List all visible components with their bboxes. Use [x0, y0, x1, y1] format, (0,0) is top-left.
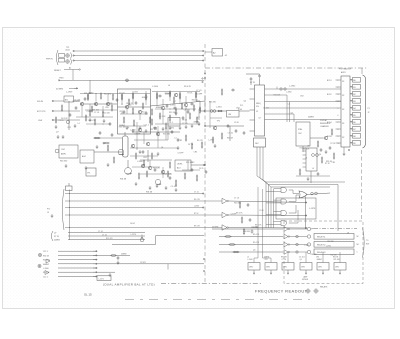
svg-text:RELAY K3: RELAY K3 [317, 251, 325, 254]
svg-text:L-1960: L-1960 [194, 206, 199, 208]
resistor R71 [94, 118, 96, 125]
svg-text:L-1978: L-1978 [309, 208, 316, 210]
and gate U4c [281, 211, 286, 216]
svg-text:R12 470: R12 470 [186, 162, 193, 164]
ground g54 [191, 124, 194, 128]
pin stub U2 4 [336, 100, 342, 102]
resistor R10 [156, 92, 158, 99]
svg-text:R7 1K: R7 1K [250, 82, 256, 84]
wire mesh c5 [155, 108, 196, 110]
capacitor C33 [166, 104, 169, 108]
row wire 215 [65, 214, 222, 216]
wire mesh b4 [120, 113, 148, 115]
svg-text:C5 .001: C5 .001 [74, 100, 80, 102]
relay row 4 feed wire [219, 251, 283, 253]
svg-text:CR2: CR2 [300, 96, 304, 98]
output wire U1 line5 [265, 113, 295, 115]
svg-text:7: 7 [338, 122, 339, 124]
bracket P/O J3 [62, 189, 64, 230]
resistor R19 [113, 156, 115, 163]
wire mesh a6 [102, 106, 104, 111]
svg-text:FREQ: FREQ [256, 103, 261, 105]
shield box amplifier stage 2 [118, 89, 151, 134]
svg-text:C3 5PF: C3 5PF [86, 111, 93, 113]
ground midl b [157, 152, 160, 156]
and gate U4d [281, 221, 286, 226]
diode CR4 [296, 235, 298, 237]
resistor R60 [151, 152, 153, 159]
transistor Q2 [94, 102, 97, 105]
transistor Q7 [184, 103, 187, 106]
svg-text:L-1960: L-1960 [304, 245, 309, 247]
diode CR6 [296, 251, 298, 253]
svg-text:2: 2 [338, 87, 339, 89]
ground amp2 c [198, 122, 201, 126]
capacitor C15 [158, 95, 162, 98]
wire amp2 out [196, 100, 200, 102]
pin circle DS3 [351, 93, 352, 94]
resistor R43 [221, 88, 223, 95]
svg-text:1: 1 [338, 80, 339, 82]
resistor R8 [145, 93, 147, 100]
output wire U1 line3 [265, 101, 342, 103]
capacitor C32 [123, 110, 126, 114]
row wire 207.5 [65, 207, 204, 209]
svg-text:R4 2.2K: R4 2.2K [61, 118, 68, 120]
svg-text:R4 2.2K: R4 2.2K [159, 116, 166, 118]
wire feed v2 [262, 189, 264, 258]
wire drop x294 [293, 114, 295, 122]
capacitor C1 [75, 106, 78, 110]
ground amp2 a [162, 127, 165, 131]
bus wire BCD [73, 60, 204, 62]
diode CR5 [296, 243, 298, 245]
resistor R15 [189, 112, 191, 119]
resistor R31 [55, 116, 57, 123]
svg-text:B8: B8 [353, 136, 355, 138]
relay row parts a [224, 236, 231, 238]
capacitor C18 [169, 176, 172, 180]
connector J4 box top [59, 54, 65, 58]
driver box A13 [300, 263, 312, 271]
transistor Q11 [148, 166, 151, 169]
gate output wire U4d [289, 222, 293, 224]
pin wire DS4 [350, 100, 353, 102]
pin stub U1 5 [250, 130, 255, 132]
pin wire DS6 [350, 114, 353, 116]
transistor Q6 [161, 106, 164, 109]
svg-text:R9 4.7K: R9 4.7K [253, 234, 260, 236]
wire mesh a5 [89, 104, 91, 110]
svg-text:CR5: CR5 [194, 152, 198, 154]
svg-text:J3: J3 [47, 212, 49, 214]
resistor R4 [89, 109, 91, 116]
wire A5 out [191, 164, 205, 166]
svg-text:AMPL: AMPL [61, 153, 66, 156]
row tick 201 [68, 200, 71, 203]
wire mesh c8 [198, 109, 200, 120]
svg-text:L-1960: L-1960 [152, 86, 158, 88]
rc group row3 [243, 228, 245, 235]
bracket readout [363, 228, 365, 258]
pin stub U2 8 [336, 142, 342, 144]
resistor R18 [107, 144, 109, 151]
driver box A10 [248, 263, 260, 271]
wire midl rail [132, 131, 180, 133]
resistor R21 [151, 118, 153, 125]
pin wire DS2 [350, 86, 353, 88]
dash rail bottom 1 [161, 282, 262, 284]
svg-text:CR2: CR2 [179, 140, 183, 142]
label U2 inner rows [342, 81, 345, 139]
resistor R56 [173, 96, 175, 103]
resistor R7 [132, 92, 134, 99]
svg-text:C3 5PF: C3 5PF [196, 94, 203, 96]
wire drop to amp [89, 80, 91, 94]
svg-text:R21 10K: R21 10K [334, 259, 341, 261]
svg-text:TP1: TP1 [87, 173, 90, 175]
ground midl a [139, 150, 142, 154]
capacitor C31 [116, 98, 119, 102]
svg-text:B7: B7 [353, 129, 355, 131]
wire input 2 [52, 110, 80, 112]
wire mesh f1 [130, 155, 158, 157]
svg-text:C12 .1: C12 .1 [43, 276, 48, 278]
capacitor C10 [235, 129, 238, 133]
indicator box DS1 [353, 78, 361, 83]
svg-text:R16 330: R16 330 [251, 227, 257, 229]
svg-text:9: 9 [338, 136, 339, 138]
wire mesh f2 [140, 173, 172, 175]
pin circle DS7 [351, 121, 352, 122]
wire to A2 [205, 51, 212, 53]
svg-text:R9 4.7K: R9 4.7K [194, 226, 201, 228]
pin stub U2 2 [336, 86, 342, 88]
svg-text:BCD2: BCD2 [327, 94, 332, 96]
resistor R64 [196, 174, 198, 181]
wire stub r10 [156, 92, 158, 94]
wire mesh f3 [182, 169, 200, 171]
box filter FL1 [168, 118, 180, 127]
wire amp2 rail [150, 101, 205, 106]
svg-text:8: 8 [338, 129, 339, 131]
resistor R12 [179, 92, 181, 99]
svg-text:R12 470: R12 470 [169, 112, 176, 114]
relay row 1 dash [314, 228, 357, 230]
svg-text:40 MHZ: 40 MHZ [56, 88, 64, 90]
output wire U1 line6 gate [265, 119, 342, 121]
relay row parts c [232, 251, 239, 253]
capacitor C36 [154, 168, 157, 172]
svg-text:LIM: LIM [228, 114, 231, 116]
wire vert q6 [162, 99, 164, 106]
svg-text:C3 5PF: C3 5PF [177, 153, 184, 155]
resistor R62 [167, 170, 169, 177]
resistor R73 [196, 116, 198, 123]
svg-text:L-1960: L-1960 [170, 105, 176, 107]
wire mesh a1 [87, 94, 89, 101]
wire feed v1 [257, 187, 259, 258]
capacitor C34 [187, 110, 190, 114]
resistor R6 [121, 93, 123, 100]
box A4 [80, 150, 94, 163]
wire mesh c4 [195, 92, 197, 101]
wire mesh e2 [209, 101, 211, 128]
svg-text:TP2: TP2 [217, 120, 220, 122]
svg-text:R9 4.7K: R9 4.7K [236, 213, 243, 215]
svg-text:CHK: CHK [38, 120, 43, 122]
svg-text:Q4: Q4 [290, 112, 292, 114]
svg-text:C7 .01: C7 .01 [98, 231, 103, 233]
svg-text:R12 470: R12 470 [331, 254, 337, 256]
wire rt1 top [124, 132, 126, 136]
svg-text:RELAY K1: RELAY K1 [317, 236, 325, 239]
connector J4 arc bottom [70, 59, 73, 65]
box oscillator Y1 [296, 122, 310, 146]
svg-text:C9 20: C9 20 [259, 210, 264, 212]
row tick 207.5 [68, 206, 71, 209]
resistor R9 [123, 116, 125, 123]
pin wire DS10 [350, 142, 353, 144]
svg-text:L-1960: L-1960 [286, 92, 291, 94]
svg-text:40MHZ: 40MHZ [317, 259, 322, 261]
svg-text:L-2571: L-2571 [99, 278, 104, 280]
wire timebase rail [296, 175, 330, 177]
wire divider input [203, 110, 227, 112]
wire rail to column [361, 68, 363, 74]
wire mesh b5 [126, 109, 128, 114]
svg-text:B2: B2 [353, 94, 355, 96]
capacitor C30 [84, 97, 87, 101]
resistor R32 [93, 137, 100, 139]
output wire U1 line4 [265, 107, 342, 109]
ic U3 counter [306, 148, 317, 171]
ground amp2 b [185, 125, 188, 129]
and gate U4a [281, 188, 286, 193]
svg-text:C3 5PF: C3 5PF [231, 213, 237, 215]
svg-text:40MHZ: 40MHZ [43, 264, 50, 266]
svg-text:R31 68: R31 68 [192, 99, 198, 101]
svg-text:C5 .001: C5 .001 [184, 110, 190, 112]
relay row 1 wire up [311, 228, 314, 231]
symbol diamond 2 [314, 289, 319, 294]
wire mesh a4 [85, 109, 117, 111]
connector J4 jack top [66, 54, 70, 58]
resistor R70 on boundary [201, 141, 203, 148]
svg-text:TRIG: TRIG [59, 78, 64, 80]
svg-text:EXT STD: EXT STD [37, 111, 46, 113]
resistor R44 [299, 168, 301, 175]
svg-text:CR5: CR5 [332, 162, 335, 164]
shield mark b [38, 264, 41, 267]
pin circle DS5 [351, 107, 352, 108]
wire mesh d2 [130, 147, 178, 149]
bracket group1 [51, 231, 53, 241]
svg-text:Q4: Q4 [253, 250, 255, 252]
double ground [57, 135, 60, 139]
ic U1 frequency divider [255, 85, 265, 136]
pin stub U2 6 [336, 128, 342, 130]
pin wire DS8 [350, 128, 353, 130]
row wire 227.5 [65, 227, 222, 229]
jog wire level [112, 244, 156, 246]
wire drop x289 [289, 102, 291, 123]
capacitor C20 above divider [231, 89, 235, 92]
junction mesh 3 [121, 103, 124, 106]
wire mesh c7 [185, 107, 187, 124]
svg-text:R16 330: R16 330 [234, 203, 240, 205]
wire stage2 rail [118, 106, 151, 108]
resistor R58 [193, 104, 195, 111]
wire u3 down [310, 171, 312, 183]
wire trigger long [59, 79, 204, 81]
resistor R81 [110, 255, 117, 257]
svg-text:AGC: AGC [82, 155, 87, 158]
svg-text:3: 3 [338, 94, 339, 96]
svg-text:C7 .01: C7 .01 [194, 192, 199, 194]
svg-text:CR2: CR2 [141, 112, 145, 114]
svg-text:ADJ: ADJ [177, 167, 180, 170]
wire feed h1 [254, 257, 258, 259]
svg-text:Q7: Q7 [54, 233, 56, 235]
capacitor C14 [145, 111, 148, 115]
assembly boundary dashed x361 [361, 150, 363, 221]
junction g1 [102, 123, 105, 126]
svg-text:R16 330: R16 330 [311, 254, 317, 256]
svg-text:C9 20: C9 20 [199, 168, 203, 170]
junction mesh 1 [136, 147, 139, 150]
wire rail amp2 bottom [155, 123, 200, 125]
ic U2 driver column [341, 76, 350, 147]
gate input wires U4c [274, 211, 282, 213]
amp A7 [222, 198, 228, 204]
svg-text:40MHZ: 40MHZ [121, 254, 127, 256]
transistor Q13 [324, 136, 327, 139]
svg-text:R16 330: R16 330 [327, 241, 333, 243]
svg-text:C7 .01: C7 .01 [234, 198, 239, 200]
transistor Q8 [138, 128, 141, 131]
resistor R1 [87, 93, 89, 100]
dash-dot rail top [205, 67, 368, 69]
svg-text:R9 4.7K: R9 4.7K [184, 86, 192, 88]
svg-text:L-1960: L-1960 [137, 161, 143, 163]
relay assembly dashed box [284, 221, 363, 284]
box limiter A6 [227, 111, 240, 118]
capacitor C13 [111, 133, 114, 137]
resistor R72 [85, 114, 87, 121]
wire stub r2 [100, 93, 102, 95]
ground below U2 [343, 152, 346, 156]
junction amp2 [174, 100, 177, 103]
svg-text:R21 10K: R21 10K [300, 148, 307, 150]
routing outline [276, 198, 316, 219]
wire bundle v2 [268, 185, 270, 229]
relay row 1 transistor [307, 227, 310, 230]
wire feed h2 [263, 257, 272, 259]
svg-text:L4: L4 [78, 123, 80, 125]
svg-text:R12 470: R12 470 [106, 238, 112, 240]
svg-text:OSC: OSC [61, 149, 66, 151]
box U1 lower [254, 138, 266, 147]
wire stub q7 [185, 96, 187, 103]
svg-text:L4: L4 [168, 85, 170, 87]
junction mesh 2 [157, 133, 160, 136]
inductor L1 [210, 110, 213, 113]
svg-text:RDT: RDT [366, 244, 369, 246]
resistor R14 [169, 114, 171, 121]
triangle mark b [45, 271, 49, 275]
wire drop x287 [286, 95, 288, 122]
wire stub r12 [179, 92, 181, 94]
junction f2 [162, 173, 165, 176]
wire mesh c6 [162, 110, 164, 124]
ground extra b [96, 145, 99, 149]
wire mesh d3 [157, 126, 159, 148]
wire bias left [68, 101, 70, 130]
svg-text:FREQUENCY READOUT: FREQUENCY READOUT [255, 289, 308, 294]
svg-text:XTAL: XTAL [298, 128, 302, 131]
ground midl d [165, 186, 168, 190]
capacitor C40 on boundary [205, 170, 208, 174]
driver box A15 [334, 263, 346, 271]
wire mesh a7 [81, 106, 83, 117]
driver box arrow 4 [305, 270, 307, 274]
svg-text:CR2: CR2 [265, 259, 268, 261]
terminal row g2-4 wire [58, 263, 97, 265]
wire bus h2 [269, 184, 339, 186]
terminal row g2-7 wire [58, 275, 97, 277]
svg-text:C5 .001: C5 .001 [263, 108, 269, 110]
connector J4 brace [56, 50, 58, 65]
transistor Q10 [146, 142, 149, 145]
indicator box DS8 [353, 127, 361, 132]
svg-text:SIG IN: SIG IN [37, 101, 44, 103]
svg-text:L-1960: L-1960 [326, 245, 331, 247]
resistor R5 [102, 110, 104, 117]
wire bundle v1 [265, 182, 267, 228]
capacitor C35 [142, 150, 145, 154]
wire bundle v4 [273, 189, 275, 228]
junction boundary b [204, 164, 205, 165]
svg-text:C9 20: C9 20 [59, 120, 64, 122]
wire below U2 [343, 147, 345, 152]
ground amp1 b [103, 119, 106, 123]
svg-text:5: 5 [338, 108, 339, 110]
svg-text:FL1: FL1 [170, 122, 173, 124]
svg-text:L-1960: L-1960 [130, 130, 136, 132]
svg-text:B3: B3 [353, 101, 355, 103]
svg-text:Q7: Q7 [197, 117, 199, 119]
wire stub r6 [121, 94, 123, 95]
resistor R80 [217, 110, 224, 112]
ground A4 [85, 166, 88, 170]
ground g55 [135, 182, 138, 186]
capacitor C37 [191, 168, 194, 172]
svg-text:Q7: Q7 [258, 117, 260, 119]
svg-text:C12 .1: C12 .1 [43, 251, 48, 253]
terminal row g1-3 wire [68, 239, 145, 241]
pin stub U1 2 [250, 98, 255, 100]
svg-text:B9: B9 [353, 143, 355, 145]
resistor R55 [159, 112, 161, 119]
relay row 4 transistor [307, 250, 310, 253]
wire input 3 [52, 119, 80, 121]
capacitor C41 [109, 122, 112, 126]
svg-text:CR5: CR5 [105, 107, 109, 109]
svg-text:Q4: Q4 [347, 233, 349, 235]
svg-text:R21 10K: R21 10K [274, 94, 281, 96]
wire gate route 1 [292, 190, 294, 194]
